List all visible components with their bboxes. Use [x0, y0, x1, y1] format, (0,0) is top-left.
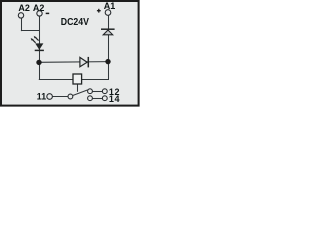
svg-text:14: 14	[109, 94, 120, 104]
svg-text:A1: A1	[104, 1, 116, 11]
svg-text:11: 11	[37, 91, 46, 101]
svg-text:DC24V: DC24V	[61, 17, 89, 28]
svg-text:A2: A2	[18, 3, 30, 13]
svg-text:A2: A2	[33, 3, 45, 13]
